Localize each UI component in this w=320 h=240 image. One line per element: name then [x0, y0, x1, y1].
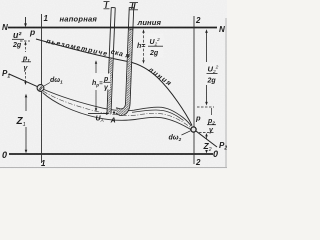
piezometric line [36, 39, 192, 126]
datum line O-O [9, 153, 213, 155]
h measure dashed line [142, 29, 144, 64]
dashed level line at dω2 [199, 132, 214, 134]
fraction p1/gamma [22, 56, 32, 73]
fraction u^2/2g (section 1 velocity head) [12, 30, 24, 49]
tube II water level [128, 28, 132, 30]
label hp = p/γ [91, 74, 110, 92]
cross-section dω1 circle [37, 85, 44, 92]
label h = U2^2/2g [137, 34, 164, 58]
tube I liquid hatch [108, 58, 113, 113]
Z2 measure line with arrows [205, 133, 208, 153]
dashed level line at p (section 2) [197, 106, 214, 108]
paper background [0, 0, 227, 169]
faint scan edge bottom [0, 167, 227, 169]
dashed extension at p level [20, 40, 30, 42]
stream tube upper boundary [44, 90, 191, 127]
Z1 measure line with arrows [25, 94, 28, 154]
fraction U2^2/2g (right) [206, 63, 219, 85]
fraction p2/γ with ticks [207, 108, 216, 134]
tube I water level [109, 57, 113, 59]
paper noise [0, 0, 1, 1]
stream tube lower boundary [43, 93, 193, 131]
piezometer tube I walls [107, 8, 115, 114]
dashed measure line p1/gamma [24, 42, 26, 86]
section line 2-2 [193, 16, 195, 164]
point A dot [113, 111, 115, 113]
faint scan edge right [225, 18, 227, 168]
hp measure line with arrows [95, 60, 97, 112]
pitot tube II walls [116, 7, 134, 116]
arrow tick onto N line [24, 17, 27, 27]
force P1 line [9, 74, 39, 87]
section line 1-1 [41, 14, 43, 163]
stream tube upper boundary (double stroke) [132, 110, 184, 121]
tube II liquid hatch [117, 29, 133, 116]
tube II mouth lips [116, 107, 117, 108]
cross-section dω2 circle [191, 127, 196, 132]
force P2 line [196, 131, 218, 147]
stream tube axis (dash-dot) [43, 91, 193, 129]
U2^2/2g measure line (right) [205, 29, 208, 105]
label II (roman) [130, 2, 139, 11]
velocity arrow UA [88, 112, 110, 115]
energy (head) line N-N [8, 27, 217, 29]
label I (roman) [104, 1, 110, 10]
